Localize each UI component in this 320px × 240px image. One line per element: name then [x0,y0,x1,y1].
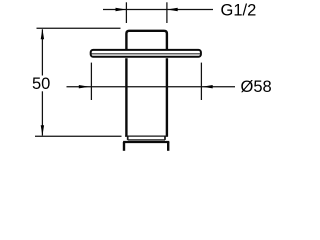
diameter 58 dimension line [67,86,236,88]
G1/2 dimension line [103,9,213,11]
bottom cap left wall [123,142,125,151]
50 top arrowhead [41,29,44,40]
50 dimension line lower segment [41,91,43,135]
G1/2 left extension line [125,2,127,23]
G1/2 left arrowhead [116,8,127,11]
svg-text:Ø58: Ø58 [241,78,272,96]
50 dimension line upper segment [41,29,43,75]
neck groove right side [164,136,166,140]
G1/2 right arrowhead [167,8,178,11]
svg-text:G1/2: G1/2 [221,2,257,20]
diameter 58 left arrowhead [79,85,90,88]
lower pipe right wall [166,58,168,137]
diameter 58 right extension line [200,63,202,100]
neck groove left side [127,136,129,140]
diameter 58 right arrowhead [202,85,213,88]
flange (escutcheon), side view [91,50,201,57]
G1/2 right extension line [166,2,168,23]
svg-text:50: 50 [32,75,50,93]
50 bottom extension line [35,135,122,137]
lower pipe left wall [125,58,127,137]
top pipe (G1/2 threaded stub) [126,31,166,50]
flange mid edge line [92,53,201,55]
50 top extension line [37,27,121,29]
pipe bottom step edge [125,135,167,137]
bottom cap right wall [167,142,169,151]
50 bottom arrowhead [41,125,44,136]
diameter 58 left extension line [90,63,92,100]
neck groove bottom edge [128,139,165,141]
bottom cap top edge [123,141,169,143]
